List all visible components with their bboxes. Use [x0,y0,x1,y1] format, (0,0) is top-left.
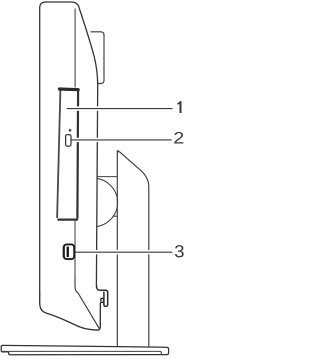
optical drive door bottom edge [58,218,77,220]
base inner line [2,351,162,354]
USB port [62,244,75,260]
bottom-rear chamfer crease [75,278,99,328]
rear cable hook [96,285,107,306]
leader line 3 [78,250,173,254]
drive LED dot [69,129,72,132]
leader line 1 [68,106,173,110]
stand column top and rear edge [117,152,149,347]
stand column front edge [116,153,118,347]
rear top protrusion [91,32,105,84]
leader line 2 [73,138,172,142]
eject button [66,135,71,147]
monitor body outline (left/top/back) [40,2,98,296]
optical drive door top cap [60,87,79,91]
hinge top line [96,176,117,178]
callout number 3 [175,245,184,257]
base top plate [1,345,168,354]
callout number 2 [174,132,183,144]
hinge bottom tick [112,215,117,217]
callout number 1 [177,101,181,113]
back panel crease line (bottom) [74,221,76,279]
body bottom edge and rear foot [40,294,101,330]
back panel crease line (top) [74,9,76,88]
optical drive door left edge [57,91,60,219]
hinge circle arc [69,178,118,227]
stand top corner nub [117,150,119,152]
optical drive door right edge [76,91,79,219]
